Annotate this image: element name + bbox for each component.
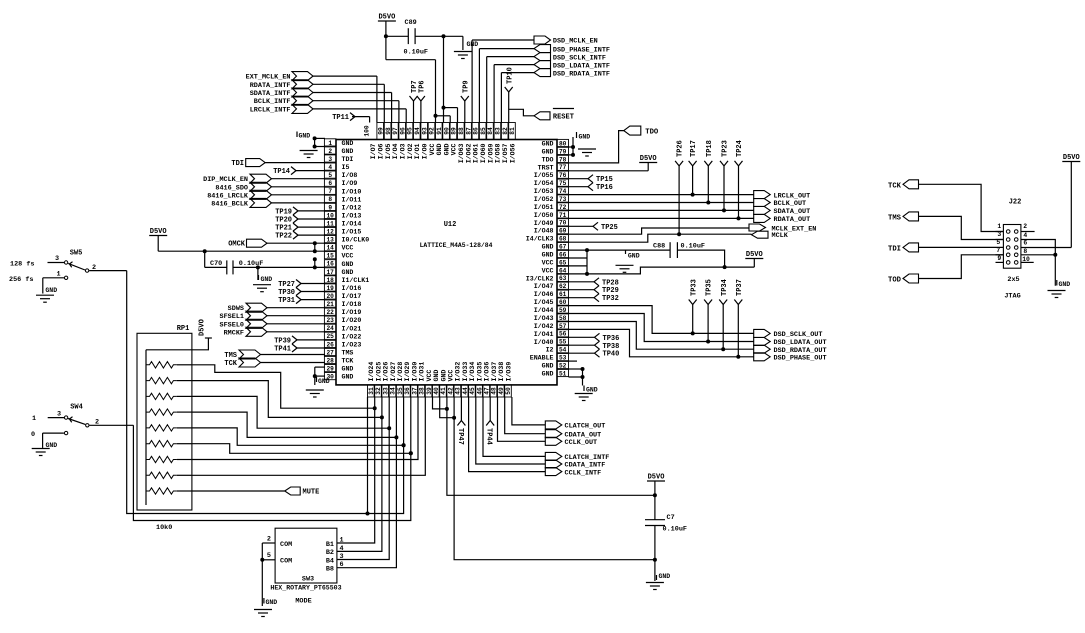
- svg-text:67: 67: [559, 244, 567, 251]
- flag DIP_MCLK_EN: [203, 174, 325, 184]
- svg-text:DSD_SCLK_OUT: DSD_SCLK_OUT: [774, 331, 823, 339]
- svg-text:TOD: TOD: [888, 277, 902, 285]
- svg-text:I1/CLK1: I1/CLK1: [342, 277, 370, 284]
- svg-text:SW5: SW5: [70, 250, 83, 258]
- ground symbol below pins 52-51: [575, 394, 593, 401]
- svg-text:62: 62: [559, 283, 567, 290]
- svg-text:TP25: TP25: [601, 224, 618, 232]
- svg-text:I/O19: I/O19: [342, 309, 362, 316]
- svg-text:I/O55: I/O55: [534, 172, 554, 179]
- flag DSD_LDATA_OUT: [569, 314, 827, 348]
- svg-text:I/O52: I/O52: [534, 196, 554, 203]
- ground net label pins 80-79: [569, 132, 591, 157]
- svg-text:I/O2: I/O2: [407, 143, 414, 159]
- svg-text:TP40: TP40: [603, 351, 620, 359]
- svg-text:TP29: TP29: [602, 287, 619, 295]
- svg-text:42: 42: [447, 387, 454, 395]
- svg-text:I/O28: I/O28: [397, 362, 404, 382]
- svg-text:I/O27: I/O27: [390, 362, 397, 382]
- flag OMCK: [228, 239, 325, 249]
- svg-text:I4/CLK3: I4/CLK3: [526, 236, 554, 243]
- svg-text:23: 23: [326, 317, 334, 324]
- flag DSD_MCLK_EN: [472, 36, 598, 123]
- svg-text:77: 77: [559, 164, 567, 171]
- svg-text:TDI: TDI: [231, 160, 244, 168]
- svg-text:D5VO: D5VO: [1063, 154, 1080, 162]
- testpoint TP38: [569, 341, 620, 351]
- svg-text:19: 19: [326, 285, 334, 292]
- ground symbol J22: [1048, 291, 1066, 298]
- capacitor C89 0.10uF: [386, 19, 463, 57]
- svg-text:83: 83: [495, 127, 502, 135]
- svg-text:128 fs: 128 fs: [10, 261, 34, 269]
- svg-text:I/O3: I/O3: [400, 143, 407, 159]
- svg-text:DSD_PHASE_OUT: DSD_PHASE_OUT: [774, 355, 827, 363]
- svg-text:37: 37: [411, 387, 418, 395]
- svg-text:GND: GND: [542, 252, 554, 259]
- svg-text:I/O53: I/O53: [534, 188, 554, 195]
- svg-text:I/O38: I/O38: [498, 362, 505, 382]
- svg-text:GND: GND: [342, 269, 354, 276]
- svg-text:LATTICE_M4A5-128/84: LATTICE_M4A5-128/84: [420, 242, 493, 249]
- svg-text:TP33: TP33: [690, 279, 698, 296]
- testpoint TP10: [505, 67, 515, 122]
- svg-text:TP24: TP24: [736, 140, 744, 157]
- svg-text:I/O25: I/O25: [375, 362, 382, 382]
- svg-text:TP14: TP14: [273, 168, 290, 176]
- flag SFSEL0: [220, 319, 325, 329]
- svg-text:11: 11: [326, 220, 334, 227]
- capacitor C88 0.10uF: [653, 242, 727, 269]
- svg-text:95: 95: [407, 127, 414, 135]
- svg-text:TP9: TP9: [462, 80, 470, 93]
- flag RESET: [509, 109, 574, 122]
- svg-text:I/O37: I/O37: [491, 362, 498, 382]
- svg-text:VCC: VCC: [342, 253, 354, 260]
- wire SW3 B4 to pin 34: [337, 397, 389, 560]
- flag DSD_PHASE_OUT: [569, 329, 827, 362]
- svg-text:39: 39: [426, 387, 433, 395]
- ground symbol bottom right: [646, 560, 670, 590]
- svg-text:34: 34: [390, 387, 397, 395]
- flag MUTE: [192, 487, 319, 497]
- wire RP1 resistor 8 to pin 39: [192, 397, 425, 475]
- svg-text:GND: GND: [45, 287, 57, 294]
- svg-text:RMCKF: RMCKF: [224, 329, 244, 337]
- svg-text:1: 1: [32, 415, 36, 423]
- svg-text:53: 53: [559, 355, 567, 362]
- svg-text:8416_LRCLK: 8416_LRCLK: [207, 192, 249, 200]
- svg-text:I/O11: I/O11: [342, 196, 362, 203]
- testpoint TP36: [569, 333, 620, 343]
- power D5VO at RP1 top: [192, 319, 212, 350]
- wire pins 67-64 tie: [569, 248, 590, 276]
- resistor pack RP1 10k: [137, 325, 192, 532]
- flag BCLK_OUT: [569, 199, 807, 209]
- svg-text:I/O1: I/O1: [414, 143, 421, 159]
- svg-text:15: 15: [326, 253, 334, 260]
- svg-text:TP26: TP26: [677, 140, 685, 157]
- svg-text:82: 82: [502, 127, 509, 135]
- wire RP1 resistor 7 to pin 38: [192, 397, 418, 460]
- svg-text:1: 1: [328, 140, 332, 147]
- svg-text:85: 85: [480, 127, 487, 135]
- testpoint TP39: [274, 336, 325, 346]
- svg-text:VCC: VCC: [429, 143, 436, 155]
- testpoint TP25: [569, 222, 618, 232]
- svg-text:49: 49: [498, 387, 505, 395]
- svg-text:TCK: TCK: [888, 182, 902, 190]
- svg-text:TMS: TMS: [342, 350, 354, 357]
- flag SFSEL1: [220, 311, 325, 321]
- svg-text:U12: U12: [444, 221, 457, 229]
- svg-text:TP6: TP6: [419, 80, 427, 93]
- svg-text:GND: GND: [542, 371, 554, 378]
- svg-text:10k0: 10k0: [156, 524, 172, 532]
- svg-text:C88: C88: [653, 243, 665, 251]
- svg-text:81: 81: [509, 127, 516, 135]
- svg-text:68: 68: [559, 236, 567, 243]
- svg-text:35: 35: [397, 387, 404, 395]
- svg-text:MCLK: MCLK: [772, 232, 789, 240]
- flag SDATA_INTF: [250, 88, 392, 123]
- flag CLATCH_INTF: [483, 397, 609, 462]
- svg-text:I/O15: I/O15: [342, 229, 362, 236]
- svg-text:I/O48: I/O48: [534, 228, 554, 235]
- svg-text:6: 6: [328, 180, 332, 187]
- svg-text:40: 40: [433, 387, 440, 395]
- svg-text:I/O10: I/O10: [342, 188, 362, 195]
- svg-text:TP47: TP47: [456, 428, 464, 445]
- svg-text:B8: B8: [326, 566, 334, 574]
- wire SW3 B8 to pin 35: [337, 397, 397, 568]
- ground symbol bottom-left: [306, 390, 324, 397]
- svg-text:GND: GND: [436, 143, 443, 155]
- ground symbol SW4: [32, 433, 58, 455]
- testpoint TP22: [275, 231, 325, 241]
- svg-text:I3/CLK2: I3/CLK2: [526, 275, 554, 282]
- svg-text:GND: GND: [628, 253, 640, 260]
- svg-text:I/O22: I/O22: [342, 333, 362, 340]
- testpoint TP29: [569, 286, 619, 296]
- flag 8416_BCLK: [211, 198, 325, 208]
- power D5VO left rail: [149, 228, 325, 253]
- svg-text:I/O12: I/O12: [342, 204, 362, 211]
- svg-text:27: 27: [326, 349, 334, 356]
- svg-text:I/O57: I/O57: [502, 143, 509, 163]
- svg-text:I/O14: I/O14: [342, 221, 362, 228]
- svg-text:10: 10: [326, 212, 334, 219]
- svg-text:TP18: TP18: [706, 140, 714, 157]
- wire VCC pin42 to D5VO: [447, 397, 657, 497]
- flag RMCKF: [224, 327, 325, 337]
- testpoint TP35: [704, 279, 714, 341]
- power D5VO at TRST: [569, 155, 658, 171]
- svg-text:GND: GND: [342, 148, 354, 155]
- ground net label pins 29-30: [313, 367, 330, 385]
- svg-text:29: 29: [326, 366, 334, 373]
- svg-text:71: 71: [559, 212, 567, 219]
- svg-text:5: 5: [996, 239, 1000, 246]
- flag CDATA_INTF: [476, 397, 605, 470]
- svg-text:91: 91: [436, 127, 443, 135]
- svg-text:43: 43: [455, 387, 462, 395]
- testpoint TP7: [410, 80, 420, 122]
- svg-text:I/O13: I/O13: [342, 212, 362, 219]
- svg-text:TP38: TP38: [603, 343, 620, 351]
- capacitor C70 0.10uF: [205, 251, 325, 274]
- svg-text:0.10uF: 0.10uF: [681, 243, 705, 251]
- svg-text:I/O45: I/O45: [534, 299, 554, 306]
- svg-text:GND: GND: [440, 370, 447, 382]
- svg-text:90: 90: [443, 127, 450, 135]
- connector J22 2x5 JTAG: [996, 199, 1030, 301]
- svg-text:SFSEL1: SFSEL1: [220, 313, 244, 321]
- svg-text:B1: B1: [326, 541, 334, 549]
- svg-text:79: 79: [559, 148, 567, 155]
- svg-text:SW3: SW3: [302, 576, 314, 584]
- svg-text:I/O42: I/O42: [534, 323, 554, 330]
- svg-text:BCLK_INTF: BCLK_INTF: [254, 98, 291, 106]
- svg-text:GND: GND: [342, 140, 354, 147]
- svg-text:I0/CLK0: I0/CLK0: [342, 237, 370, 244]
- flag TCK: [888, 180, 1003, 232]
- svg-text:13: 13: [326, 237, 334, 244]
- ground symbol top-left: [300, 151, 318, 158]
- svg-text:4: 4: [1023, 232, 1027, 239]
- svg-text:GND: GND: [433, 370, 440, 382]
- testpoint TP41: [274, 344, 325, 354]
- svg-text:ENABLE: ENABLE: [530, 355, 554, 362]
- svg-text:I/O18: I/O18: [342, 301, 362, 308]
- svg-text:TP27: TP27: [278, 281, 295, 289]
- svg-text:GND: GND: [342, 374, 354, 381]
- svg-text:I/O17: I/O17: [342, 293, 362, 300]
- svg-text:56: 56: [559, 331, 567, 338]
- wire VCC tie pins 14-15: [313, 241, 317, 251]
- svg-text:26: 26: [326, 341, 334, 348]
- svg-text:J22: J22: [1009, 199, 1022, 207]
- svg-text:TP44: TP44: [485, 428, 493, 445]
- wire RP1 resistor 3 to pin 34: [192, 396, 391, 430]
- svg-text:VCC: VCC: [342, 245, 354, 252]
- wire GND to pins 90/88: [442, 36, 458, 122]
- svg-text:GND: GND: [542, 148, 554, 155]
- svg-text:54: 54: [559, 347, 567, 354]
- svg-text:65: 65: [559, 259, 567, 266]
- testpoint TP34: [719, 279, 729, 349]
- svg-text:CCLK_INTF: CCLK_INTF: [565, 469, 602, 477]
- wire D5VO to VCC pins 91/89: [386, 36, 450, 122]
- wire pin41 to pin43 junction: [440, 397, 456, 420]
- svg-text:I/O51: I/O51: [534, 204, 554, 211]
- testpoint TP31: [278, 296, 325, 306]
- testpoint TP37: [734, 279, 744, 357]
- wire RP1 resistor 4 to pin 35: [192, 412, 399, 439]
- svg-text:24: 24: [326, 325, 334, 332]
- svg-text:C89: C89: [405, 19, 417, 27]
- svg-text:DSD_SCLK_INTF: DSD_SCLK_INTF: [553, 54, 606, 62]
- testpoint TP30: [278, 288, 325, 298]
- wire SW3 COM pins to ground: [260, 543, 275, 606]
- testpoint TP24: [735, 140, 745, 218]
- svg-text:TCK: TCK: [224, 360, 237, 368]
- svg-text:97: 97: [392, 127, 399, 135]
- ground net label pins 52-51: [569, 367, 598, 394]
- svg-text:I/O9: I/O9: [342, 180, 358, 187]
- svg-text:DSD_LDATA_INTF: DSD_LDATA_INTF: [553, 62, 610, 70]
- svg-text:99: 99: [377, 127, 384, 135]
- svg-text:31: 31: [368, 387, 375, 395]
- switch SW3 HEX_ROTARY_PT65503: [267, 528, 344, 605]
- testpoint TP26: [675, 140, 685, 234]
- wire VCC pins 64 to D5VO: [587, 267, 754, 274]
- svg-text:3: 3: [997, 231, 1001, 238]
- svg-text:GND: GND: [542, 363, 554, 370]
- svg-text:TDO: TDO: [645, 129, 659, 137]
- svg-text:63: 63: [559, 275, 567, 282]
- svg-text:4: 4: [328, 164, 332, 171]
- ground net label pins 1-2: [297, 132, 325, 149]
- svg-text:75: 75: [559, 180, 567, 187]
- flag TDO: [569, 126, 659, 163]
- svg-text:45: 45: [469, 387, 476, 395]
- flag TMS: [224, 350, 325, 360]
- svg-text:I/O21: I/O21: [342, 325, 362, 332]
- testpoint TP11: [332, 113, 369, 123]
- svg-text:TRST: TRST: [538, 164, 554, 171]
- svg-text:59: 59: [559, 307, 567, 314]
- svg-text:92: 92: [429, 127, 436, 135]
- svg-text:DIP_MCLK_EN: DIP_MCLK_EN: [203, 176, 248, 184]
- svg-text:I/O43: I/O43: [534, 315, 554, 322]
- svg-text:COM: COM: [280, 558, 292, 566]
- svg-text:C70: C70: [210, 260, 222, 268]
- svg-text:60: 60: [559, 299, 567, 306]
- svg-text:2: 2: [1023, 223, 1027, 230]
- svg-text:JTAG: JTAG: [1004, 293, 1020, 301]
- svg-text:D5VO: D5VO: [378, 14, 395, 22]
- svg-text:TP35: TP35: [706, 279, 714, 296]
- svg-text:5: 5: [267, 552, 271, 560]
- svg-text:7: 7: [328, 188, 332, 195]
- flag SDATA_OUT: [569, 206, 811, 216]
- svg-text:I/O29: I/O29: [404, 362, 411, 382]
- svg-text:MUTE: MUTE: [303, 489, 320, 497]
- flag EXT_MCLK_EN: [246, 72, 377, 123]
- svg-text:GND: GND: [342, 261, 354, 268]
- flag RDATA_INTF: [250, 80, 385, 123]
- svg-text:0.10uF: 0.10uF: [663, 526, 687, 534]
- power D5VO near C88: [745, 251, 763, 267]
- svg-text:DSD_PHASE_INTF: DSD_PHASE_INTF: [553, 46, 610, 54]
- svg-text:I/O58: I/O58: [495, 143, 502, 163]
- svg-text:69: 69: [559, 228, 567, 235]
- flag TDI: [888, 243, 1003, 254]
- flag TMS: [888, 212, 1003, 240]
- svg-text:I/O34: I/O34: [469, 362, 476, 382]
- ground symbol SW3: [254, 598, 277, 617]
- svg-text:73: 73: [559, 196, 567, 203]
- svg-text:TP15: TP15: [596, 176, 613, 184]
- ground net label J22: [1021, 240, 1070, 289]
- svg-text:9: 9: [328, 204, 332, 211]
- svg-text:46: 46: [476, 387, 483, 395]
- svg-text:TP22: TP22: [275, 233, 292, 241]
- svg-text:I2: I2: [546, 347, 554, 354]
- svg-text:94: 94: [414, 127, 421, 135]
- flag LRCLK_INTF: [250, 104, 406, 122]
- svg-text:I/O31: I/O31: [419, 362, 426, 382]
- svg-text:GND: GND: [542, 141, 554, 148]
- flag BCLK_INTF: [254, 96, 399, 122]
- svg-text:I/O32: I/O32: [455, 362, 462, 382]
- svg-text:18: 18: [326, 277, 334, 284]
- svg-text:I/O41: I/O41: [534, 331, 554, 338]
- svg-text:EXT_MCLK_EN: EXT_MCLK_EN: [246, 74, 291, 82]
- svg-text:CLATCH_OUT: CLATCH_OUT: [565, 423, 606, 431]
- svg-text:I/O40: I/O40: [534, 339, 554, 346]
- svg-text:RESET: RESET: [553, 114, 574, 122]
- svg-text:I/O0: I/O0: [422, 143, 429, 159]
- svg-text:0.10uF: 0.10uF: [404, 49, 428, 57]
- svg-text:GND: GND: [542, 244, 554, 251]
- svg-text:I/O23: I/O23: [342, 341, 362, 348]
- svg-text:TP16: TP16: [596, 184, 613, 192]
- U12 bottom pin numbers 31-50 and names: [368, 362, 513, 397]
- svg-text:TP34: TP34: [721, 279, 729, 296]
- svg-text:I/O54: I/O54: [534, 180, 554, 187]
- svg-text:36: 36: [404, 387, 411, 395]
- svg-text:TP20: TP20: [275, 217, 292, 225]
- flag DSD_LDATA_INTF: [494, 61, 610, 123]
- svg-text:1: 1: [997, 223, 1001, 230]
- svg-text:52: 52: [559, 362, 567, 369]
- flag CCLK_OUT: [498, 397, 598, 447]
- wire pin 31 to bus: [366, 397, 370, 516]
- svg-text:87: 87: [465, 127, 472, 135]
- svg-text:TP39: TP39: [274, 337, 291, 345]
- flag DSD_SCLK_INTF: [487, 53, 606, 123]
- svg-text:20: 20: [326, 293, 334, 300]
- svg-text:I5: I5: [342, 164, 350, 171]
- testpoint TP17: [689, 140, 699, 194]
- svg-text:VCC: VCC: [451, 143, 458, 155]
- svg-text:100: 100: [364, 125, 371, 136]
- svg-text:I/O44: I/O44: [534, 307, 554, 314]
- svg-text:16: 16: [326, 261, 334, 268]
- testpoint TP27: [278, 280, 325, 290]
- testpoint TP6: [417, 80, 427, 122]
- svg-text:74: 74: [559, 188, 567, 195]
- svg-text:I/O61: I/O61: [473, 143, 480, 163]
- svg-text:80: 80: [559, 140, 567, 147]
- svg-text:41: 41: [440, 387, 447, 395]
- svg-text:51: 51: [559, 370, 567, 377]
- testpoint TP40: [569, 349, 620, 359]
- svg-text:GND: GND: [586, 387, 598, 394]
- svg-text:RP1: RP1: [177, 325, 190, 333]
- flag 8416_SDO: [215, 182, 325, 192]
- svg-text:TP30: TP30: [278, 289, 295, 297]
- svg-text:9: 9: [997, 255, 1001, 262]
- svg-text:17: 17: [326, 269, 334, 276]
- svg-text:98: 98: [385, 127, 392, 135]
- testpoint TP16: [569, 183, 613, 193]
- testpoint TP47: [456, 397, 466, 445]
- wire pin43 to GND: [454, 397, 657, 562]
- svg-text:66: 66: [559, 251, 567, 258]
